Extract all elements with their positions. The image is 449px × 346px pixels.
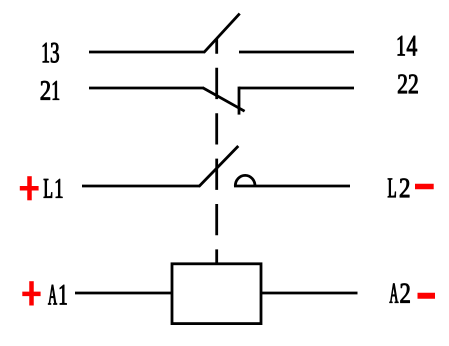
- wire 13 left: [89, 51, 205, 54]
- NC contact 21-22 movable arm: [203, 88, 245, 112]
- terminal label A1: [48, 285, 66, 305]
- polarity plus at A1: [22, 281, 40, 305]
- wire A1 left: [75, 292, 172, 295]
- wire A2 right: [261, 292, 358, 295]
- terminal label 13: [43, 43, 59, 63]
- mechanical linkage dashed line: [215, 39, 218, 264]
- polarity minus at A2: [418, 293, 436, 299]
- polarity plus at L1: [20, 176, 39, 200]
- wire L1 left: [82, 185, 200, 188]
- terminal label L2: [388, 179, 409, 198]
- polarity minus at L2: [415, 184, 434, 190]
- terminal label 22: [398, 75, 418, 94]
- wire 21 left: [89, 87, 204, 90]
- terminal label 14: [398, 36, 417, 56]
- coil A1-A2 rectangle: [172, 264, 261, 324]
- wire 22 right: [239, 87, 354, 90]
- wire 14 right: [239, 51, 354, 54]
- power contact arc blow-out half-circle: [235, 175, 255, 186]
- wire L2 right: [234, 185, 350, 188]
- terminal label L1: [44, 179, 63, 198]
- NC contact 21-22 fixed stop: [238, 87, 241, 115]
- terminal label 21: [41, 81, 59, 100]
- terminal label A2: [390, 284, 410, 303]
- NO contact 13-14 movable arm: [204, 14, 240, 53]
- power contact L1-L2 movable arm: [199, 146, 239, 187]
